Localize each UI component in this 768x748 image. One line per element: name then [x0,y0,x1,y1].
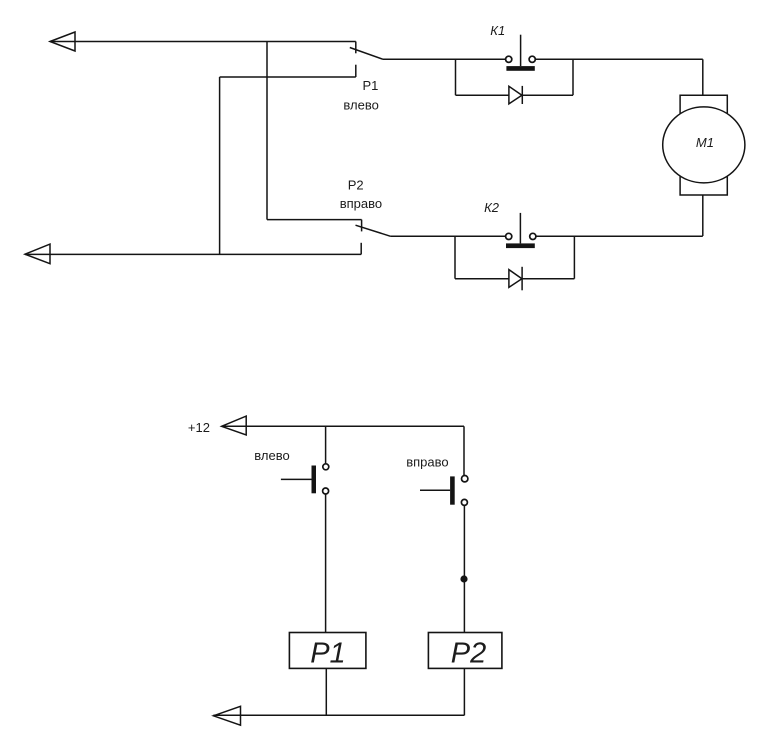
svg-text:М1: М1 [696,135,714,150]
diode VD1 across K1 [509,86,522,104]
svg-text:Р2: Р2 [451,638,486,670]
wire: row2 from K2 right contact to motor [536,235,703,237]
diode VD2 across K2 [509,270,522,288]
wire: K2 bypass bottom right [522,278,574,280]
wire: K2 bypass bottom left [455,278,509,280]
wire: K1 bypass left vertical [455,59,457,95]
pushbutton (влево): lower contact circle [323,488,329,494]
button K2: contact circle left [506,233,512,239]
arrow (+12 supply terminal) [222,416,247,435]
pushbutton (влево): actuator stem [281,478,312,480]
svg-text:Р2: Р2 [348,177,364,192]
svg-text:влево: влево [254,448,289,463]
wire: left button to relay coil P1 [325,494,327,633]
svg-text:Р1: Р1 [363,78,379,93]
button K1: actuator bar [506,66,534,71]
button K1: contact circle left [506,56,512,62]
motor M1: lower brush block [680,176,727,195]
button K2: contact circle right [530,233,536,239]
pushbutton (вправо): actuator bar [450,476,455,504]
wire: vertical from top rail down to P2 input [266,42,268,220]
relay contact P2: movable arm [356,225,391,236]
pushbutton (вправо): upper contact circle [462,476,468,482]
relay contact P2: upper fixed contact stub [361,220,363,232]
wire: K1 bypass bottom right [522,94,573,96]
wire: bottom rail from arrow to P2 lower contact [25,253,361,255]
motor M1: body circle [663,107,745,183]
arrow (bottom return terminal) [213,706,240,725]
svg-text:К1: К1 [490,23,505,38]
relay coil P2 box [428,633,502,669]
wire: right button to relay coil P2 [463,505,465,632]
wire: drop to right button [463,426,465,475]
relay contact P1: upper fixed contact stub [355,42,357,54]
button K2: actuator bar [506,243,535,248]
button K1: contact circle right [529,56,535,62]
wire: P2 coil to bottom rail [463,668,465,715]
svg-text:К2: К2 [484,200,500,215]
pushbutton (вправо): lower contact circle [461,499,467,505]
svg-text:вправо: вправо [340,196,382,211]
wire: vertical down to bottom rail [219,77,221,254]
svg-text:Р1: Р1 [310,638,345,670]
wire: row1 from K1 right contact to motor [535,58,702,60]
svg-text:вправо: вправо [406,454,448,469]
wire: K1 bypass bottom left [456,94,509,96]
svg-text:влево: влево [343,98,378,113]
wire: motor lower lead [702,195,704,236]
relay contact P1: lower fixed contact stub [355,65,357,77]
junction dot on P2 coil wire [460,575,467,582]
relay coil P1 box [289,633,366,669]
button K2: actuator stem [519,213,521,244]
relay contact P2: lower fixed contact stub [360,243,362,255]
wire: K2 bypass left vertical [454,236,456,278]
motor M1: upper brush block [680,95,727,113]
wire: top rail from arrow to P1 contact [50,41,356,43]
button K1: actuator stem [520,35,522,66]
relay contact P1: movable arm [350,48,383,60]
svg-text:+12: +12 [188,420,210,435]
wire: +12 rail [222,425,464,427]
wire: K2 bypass right vertical [573,236,575,278]
wire: row2 from P2 arm to K2 left contact [391,235,506,237]
wire: motor upper lead [702,59,704,95]
arrow (bottom-left external terminal of top circuit) [25,244,50,264]
arrow (top-left external terminal) [50,32,75,51]
pushbutton (влево): upper contact circle [323,464,329,470]
wire: drop to left button [325,426,327,463]
wire: horizontal into P2 contact [267,219,362,221]
wire: bottom return rail [213,714,464,716]
wire: K1 bypass right vertical [572,59,574,95]
pushbutton (вправо): actuator stem [420,489,450,491]
wire: P1 coil to bottom rail [325,668,327,715]
wire: row1 from P1 arm to K1 left contact [383,58,506,60]
pushbutton (влево): actuator bar [312,466,317,494]
wire: from P1 lower contact going left [220,76,356,78]
